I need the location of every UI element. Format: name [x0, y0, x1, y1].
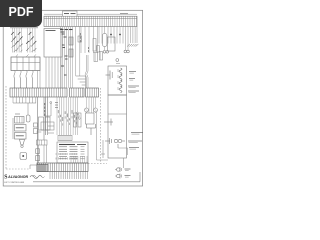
svg-text:ALVAGNOR: ALVAGNOR	[8, 175, 28, 179]
svg-text:S: S	[4, 175, 7, 181]
svg-text:LIFT CONTROLLER: LIFT CONTROLLER	[4, 182, 24, 184]
